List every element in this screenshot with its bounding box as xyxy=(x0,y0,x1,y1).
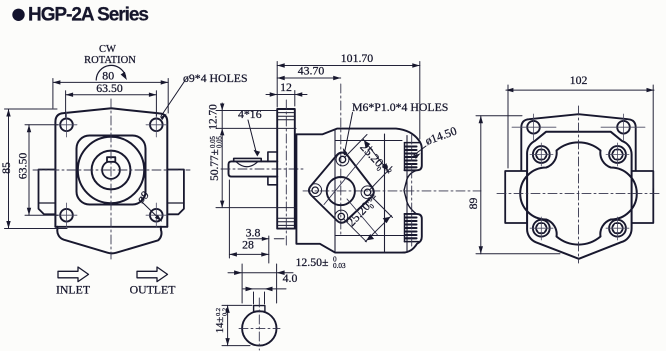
rear vertical centerline xyxy=(578,106,580,263)
M6 hole right xyxy=(364,189,370,195)
front big circle xyxy=(78,137,144,203)
rear clover cover xyxy=(520,142,637,244)
rear screw top-left xyxy=(533,146,550,163)
25.20 upper dim extension and dimension lines xyxy=(345,135,393,191)
dimension 4.0 xyxy=(243,289,286,304)
dimension 85 (front height) xyxy=(5,109,68,229)
rear screw crosshairs xyxy=(530,143,629,240)
svg-text:14±: 14± xyxy=(215,317,226,334)
bottom shaft section view circle xyxy=(242,311,276,345)
dimension 25.20 upper xyxy=(356,140,395,180)
dimension 89 xyxy=(476,116,560,254)
dimension 12.70 and 50.77±0.05 xyxy=(216,103,296,208)
front body bottom edge xyxy=(55,226,167,228)
svg-text:63.50: 63.50 xyxy=(16,153,30,180)
svg-text:0.05: 0.05 xyxy=(217,136,224,148)
rear flange plate xyxy=(521,114,635,172)
rear screw bottom-right xyxy=(609,220,626,237)
svg-text:ø14.50: ø14.50 xyxy=(423,124,458,148)
side hub step xyxy=(268,152,277,185)
svg-text:12.50±: 12.50± xyxy=(296,255,329,269)
svg-text:4.0: 4.0 xyxy=(283,271,298,285)
rear flange hole right xyxy=(617,121,630,134)
M6 hole top xyxy=(339,156,345,162)
svg-text:M6*P1.0*4 HOLES: M6*P1.0*4 HOLES xyxy=(352,100,448,114)
svg-text:102: 102 xyxy=(570,73,588,87)
side diagonal centerline 1 xyxy=(324,147,372,205)
side shaft keyway slot bottom xyxy=(236,162,258,167)
rear flange hole crosshairs xyxy=(512,114,645,140)
side shaft key (proud of shaft) xyxy=(234,158,262,161)
front rounded square face xyxy=(77,136,146,205)
25.20 lower dim extension and dimension lines xyxy=(344,195,393,242)
svg-text:INLET: INLET xyxy=(56,283,91,297)
dimension 63.50 (front vertical hole spacing) xyxy=(25,125,58,215)
side diagonal centerline 2 xyxy=(347,199,378,235)
front vertical centerline xyxy=(110,99,112,259)
svg-text:89: 89 xyxy=(466,198,480,210)
svg-text:12: 12 xyxy=(280,80,292,94)
front shaft circle xyxy=(102,161,120,179)
dimension 102 xyxy=(506,85,654,188)
flange strip crown lines xyxy=(277,113,295,226)
side rounded diamond cover plate xyxy=(309,152,374,222)
dimension 80 (front width) xyxy=(53,79,168,114)
side body chamfer boundary lines xyxy=(335,129,407,252)
svg-text:ø9*4 HOLES: ø9*4 HOLES xyxy=(183,71,248,85)
front hole crosshairs xyxy=(56,112,167,227)
svg-text:50.77±: 50.77± xyxy=(209,149,221,181)
svg-text:0.2: 0.2 xyxy=(222,308,229,316)
front mounting hole top-left xyxy=(60,119,73,132)
front left tab xyxy=(39,170,56,215)
front right tab xyxy=(167,170,184,215)
front body outline xyxy=(55,108,167,227)
side shaft centerline xyxy=(221,168,303,170)
side port centerline xyxy=(411,135,413,249)
side bottom port boss with thread hatch xyxy=(403,214,422,253)
dimension 14±0.2 xyxy=(222,305,252,345)
flange strip centerline xyxy=(285,100,287,248)
rear right tab xyxy=(632,171,654,223)
rear screw bottom-left xyxy=(533,220,550,237)
rear body xyxy=(527,132,632,259)
svg-text:4*16: 4*16 xyxy=(238,107,262,121)
OUTLET block arrow xyxy=(137,267,168,282)
side body outline xyxy=(296,129,421,171)
side flange strip xyxy=(277,109,295,229)
dimension 43.70 xyxy=(277,77,341,79)
rear horizontal centerline xyxy=(497,193,662,195)
side horizontal centerline xyxy=(303,190,481,192)
dimension 3.8 xyxy=(248,236,284,263)
side top port boss with thread hatch xyxy=(405,142,420,144)
front mounting hole bottom-left xyxy=(60,209,73,222)
INLET block arrow xyxy=(58,267,89,282)
dimension 63.50 (front top hole spacing) xyxy=(66,91,157,117)
svg-text:ROTATION: ROTATION xyxy=(84,55,136,66)
svg-text:0.03: 0.03 xyxy=(333,262,346,270)
dimension 28 xyxy=(229,180,268,258)
rear left tab xyxy=(505,171,527,223)
svg-text:OUTLET: OUTLET xyxy=(130,283,177,297)
title bullet xyxy=(12,9,24,21)
svg-text:HGP-2A Series: HGP-2A Series xyxy=(28,4,149,25)
side shaft xyxy=(229,161,278,176)
dimension 12 xyxy=(266,91,307,107)
svg-text:28: 28 xyxy=(242,238,254,252)
dimension 12.50 +0/-0.03 xyxy=(228,264,293,303)
svg-text:43.70: 43.70 xyxy=(298,64,325,78)
front middle circle xyxy=(92,151,131,190)
svg-text:85: 85 xyxy=(0,162,13,174)
svg-text:CW: CW xyxy=(99,44,116,55)
front mounting hole bottom-right xyxy=(150,209,163,222)
side central circle xyxy=(327,177,355,205)
svg-text:101.70: 101.70 xyxy=(341,51,374,65)
rear screw top-right xyxy=(609,146,626,163)
front bottom V shape xyxy=(57,227,161,254)
bottom section centerlines xyxy=(258,298,260,350)
rear flange hole left xyxy=(527,121,540,134)
dimension 25.20 lower xyxy=(344,190,383,230)
side waist between ports xyxy=(404,170,417,214)
svg-text:12.70: 12.70 xyxy=(208,104,220,130)
front shaft key xyxy=(107,157,115,162)
M6 hole bottom xyxy=(338,213,344,219)
rotation arc arrow xyxy=(96,65,125,80)
bottom section key xyxy=(254,306,265,312)
front horizontal centerline xyxy=(33,169,190,171)
side vertical centerline through cover xyxy=(340,84,342,235)
svg-text:63.50: 63.50 xyxy=(96,81,123,95)
front mounting hole top-right xyxy=(150,119,163,132)
M6 hole left xyxy=(312,187,318,193)
dimension 101.70 xyxy=(277,62,420,140)
